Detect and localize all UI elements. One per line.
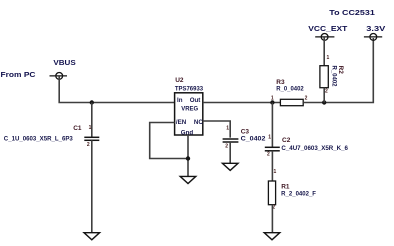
svg-text:2: 2	[325, 89, 328, 95]
power symbol VBUS	[50, 73, 68, 80]
wire rail junction down to C2	[271, 103, 273, 148]
ground (below C3)	[222, 163, 238, 170]
svg-text:1: 1	[274, 169, 277, 175]
svg-text:R2: R2	[337, 66, 344, 75]
capacitor C2	[265, 147, 280, 151]
wire rail to C1 top	[91, 103, 93, 138]
svg-text:2: 2	[87, 142, 90, 148]
capacitor C3	[223, 139, 239, 142]
svg-text:VREG: VREG	[181, 105, 198, 112]
junction node R2 / 3.3V	[322, 100, 326, 104]
svg-text:/EN: /EN	[176, 119, 187, 126]
wire /EN loop to Gnd	[150, 123, 188, 159]
wire R2 pin 2 to rail	[323, 88, 325, 103]
svg-text:2: 2	[225, 144, 228, 150]
junction node Gnd//EN	[186, 156, 190, 160]
svg-text:3.3V: 3.3V	[366, 26, 385, 33]
resistor R3	[280, 99, 303, 105]
svg-text:R_2_0402_F: R_2_0402_F	[281, 192, 316, 198]
wire Gnd pin down to ground	[187, 135, 189, 176]
wire VBUS down to input rail and to U2 In	[59, 76, 174, 103]
svg-text:2: 2	[267, 151, 270, 157]
wire C1 bottom to ground	[91, 140, 93, 232]
svg-text:TPS76933: TPS76933	[175, 86, 204, 92]
power symbol 3.3V	[364, 34, 382, 41]
svg-text:C1: C1	[73, 125, 82, 132]
svg-text:Gnd: Gnd	[181, 129, 194, 136]
junction node VREG_OUT / C2 branch	[270, 100, 274, 104]
svg-text:R1: R1	[281, 184, 290, 191]
wire VCC_EXT to R2 pin 1	[323, 37, 325, 66]
svg-text:R_0402: R_0402	[330, 66, 336, 88]
wire U2 Out to R3 pin 1	[203, 102, 281, 104]
svg-text:VBUS: VBUS	[53, 60, 76, 67]
svg-text:1: 1	[271, 96, 274, 102]
resistor R1	[268, 181, 275, 205]
svg-text:To CC2531: To CC2531	[329, 10, 375, 17]
svg-text:VCC_EXT: VCC_EXT	[308, 26, 348, 33]
svg-text:2: 2	[305, 96, 308, 102]
svg-text:C2: C2	[282, 137, 291, 144]
svg-text:C_4U7_0603_X5R_K_6: C_4U7_0603_X5R_K_6	[281, 146, 348, 152]
ground (below C1)	[84, 233, 100, 240]
svg-text:1: 1	[268, 134, 271, 140]
svg-text:In: In	[177, 97, 183, 104]
ground (below R1)	[264, 233, 280, 240]
svg-text:U2: U2	[175, 77, 184, 84]
svg-text:NC: NC	[194, 119, 203, 126]
label R2 / value R_0402 (rotated)	[330, 66, 344, 88]
wire NC pin to C3	[203, 121, 230, 138]
svg-text:1: 1	[89, 125, 92, 131]
svg-text:Out: Out	[190, 97, 201, 104]
svg-text:C_1U_0603_X5R_L_6P3: C_1U_0603_X5R_L_6P3	[4, 136, 74, 142]
svg-text:1: 1	[327, 55, 330, 61]
capacitor C1	[84, 137, 99, 140]
svg-text:R_0_0402: R_0_0402	[276, 86, 304, 92]
power symbol VCC_EXT	[315, 34, 334, 41]
svg-text:From PC: From PC	[1, 72, 36, 79]
wire R3 pin 2 to 3.3V corner	[303, 38, 373, 103]
voltage regulator U2 body	[175, 93, 203, 135]
resistor R2	[320, 66, 328, 88]
wire C2 bottom to R1 pin 1	[271, 151, 273, 181]
svg-text:1: 1	[226, 125, 229, 131]
svg-text:C3: C3	[241, 129, 250, 136]
svg-text:R3: R3	[276, 79, 285, 86]
wire R1 pin 2 to ground	[271, 205, 273, 233]
junction node VBUS/C1	[90, 100, 94, 104]
wire C3 bottom to ground	[229, 142, 231, 163]
svg-text:C_0402: C_0402	[241, 136, 267, 142]
ground (below U2)	[180, 176, 196, 183]
